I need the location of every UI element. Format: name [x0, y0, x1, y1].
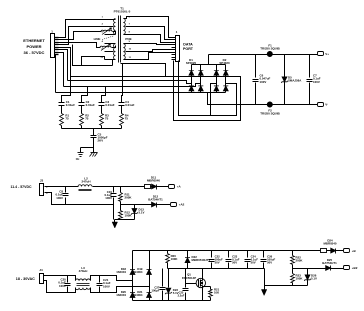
- svg-text:1N4004: 1N4004: [133, 293, 143, 297]
- wire V+ rail: [209, 54, 315, 56]
- svg-text:36 - 57VDC: 36 - 57VDC: [24, 50, 45, 55]
- wire to terminal VA2: [157, 204, 168, 206]
- wire long net B to bridge1 col1 mid: [68, 81, 192, 84]
- svg-text:0.01uF: 0.01uF: [66, 103, 75, 107]
- wire Q1 gate: [186, 283, 197, 285]
- svg-text:75: 75: [105, 117, 109, 121]
- wire bottom bridge bottom rail: [133, 300, 211, 302]
- svg-text:1N4004: 1N4004: [116, 293, 126, 297]
- svg-text:MBR0540: MBR0540: [323, 242, 336, 246]
- connector J2 DATA PORT: [176, 36, 180, 62]
- resistor R3 75: [101, 106, 103, 114]
- diode bridge rectifier diode top col2: [198, 70, 203, 75]
- capacitor C3 0.01uF: [101, 100, 103, 103]
- capacitor C23 0.1uF 50V: [228, 251, 230, 258]
- capacitor C24 0.1uF 50V: [247, 251, 249, 258]
- svg-text:470uH: 470uH: [79, 269, 88, 273]
- fuse box F4: [321, 249, 327, 253]
- wire Q1 drain to mid rail: [202, 269, 204, 281]
- diode bridge rectifier diode top col3: [214, 70, 219, 75]
- connector J3: [40, 184, 44, 196]
- diode D24 MBR0540: [327, 250, 331, 252]
- svg-text:PT61016L-5: PT61016L-5: [114, 10, 131, 14]
- wire J3 pin1 top rail: [45, 186, 79, 188]
- wire long net A loop under bridges to data port: [71, 61, 241, 121]
- svg-text:18 - 30VAC: 18 - 30VAC: [16, 277, 35, 281]
- wire J1 pin7 long line: [55, 53, 64, 87]
- transformer T1 upper primary winding: [105, 19, 116, 21]
- wire cap bank feeds: [82, 87, 88, 100]
- svg-text:100V: 100V: [260, 80, 267, 84]
- wire cap bank bottom bus: [62, 128, 122, 130]
- terminal +VA: [166, 186, 169, 188]
- svg-text:MBR0540HT1: MBR0540HT1: [192, 258, 211, 262]
- svg-text:11.4 - 57VDC: 11.4 - 57VDC: [10, 185, 31, 189]
- wire bridge2 col1 mid stub: [211, 84, 217, 116]
- wire primary lower rail: [73, 45, 113, 66]
- diode D20 1N4004: [130, 293, 135, 298]
- choke L1 on pair wire: [101, 30, 112, 31]
- choke L2 on pair wire: [100, 46, 111, 47]
- svg-text:1N4004: 1N4004: [116, 270, 126, 274]
- svg-text:MBR0540: MBR0540: [147, 179, 160, 183]
- wire bridge negative riser and V- rail: [208, 93, 315, 105]
- wire T1 sec pin to data port pin3: [131, 35, 172, 43]
- capacitor C8 0.1uF 100V: [65, 187, 67, 193]
- choke L3 common mode upper winding: [75, 279, 90, 281]
- resistor R11 200K: [120, 187, 122, 193]
- svg-text:SMAJ58A: SMAJ58A: [288, 79, 302, 83]
- svg-text:75: 75: [85, 117, 89, 121]
- svg-text:100K: 100K: [171, 257, 179, 261]
- wire J1 pin1 to T1 upper winding top: [55, 20, 105, 38]
- svg-text:2.2uF: 2.2uF: [178, 294, 185, 298]
- resistor R20 100K: [167, 251, 169, 254]
- resistor R22 200K: [292, 251, 294, 256]
- svg-text:V+: V+: [325, 52, 329, 56]
- svg-text:DATA: DATA: [183, 43, 193, 47]
- fuse F1: [267, 51, 272, 56]
- diode bridge rectifier diode bottom col4: [223, 86, 228, 91]
- svg-text:100K: 100K: [296, 277, 304, 281]
- svg-text:50V: 50V: [251, 261, 256, 265]
- terminal +B2: [341, 268, 344, 270]
- resistor R21 10K: [203, 286, 211, 288]
- capacitor C25 2.2uF: [183, 288, 189, 290]
- capacitor C4 0.01uF: [121, 100, 123, 103]
- svg-text:75: 75: [65, 117, 69, 121]
- svg-text:200K: 200K: [296, 259, 304, 263]
- svg-text:50V: 50V: [267, 261, 272, 265]
- svg-text:100V: 100V: [59, 284, 66, 288]
- svg-text:+B2: +B2: [352, 266, 358, 270]
- svg-text:10K: 10K: [214, 291, 219, 295]
- svg-text:TR/250 SQUIB: TR/250 SQUIB: [260, 111, 279, 115]
- transformer T1 upper secondary winding: [123, 19, 125, 35]
- capacitor C1 0.01uF: [61, 100, 63, 103]
- ground arrow middle section: [112, 222, 117, 228]
- inductor L2 22uH: [78, 185, 92, 187]
- svg-text:5.1V: 5.1V: [173, 291, 179, 295]
- svg-text:LINE: LINE: [94, 37, 101, 41]
- svg-text:100V: 100V: [105, 196, 112, 200]
- capacitor C26 100uF 50V: [263, 251, 265, 258]
- svg-text:ETHERNET: ETHERNET: [23, 38, 45, 43]
- diode D25 BAT54HT1: [326, 266, 331, 271]
- capacitor C7 0.1uF 100V: [309, 55, 311, 78]
- wire bottom bus middle section: [115, 219, 135, 221]
- diode D18 1N4004: [130, 270, 135, 275]
- zener diode D13 5.1V: [134, 205, 136, 209]
- terminal V+: [315, 54, 318, 56]
- svg-text:100V: 100V: [103, 284, 110, 288]
- transformer T1 core: [118, 16, 120, 63]
- diode D21 1N4004: [147, 293, 152, 298]
- svg-text:POWER: POWER: [26, 44, 41, 49]
- capacitor C22 100uF 50V: [211, 251, 213, 258]
- wire to terminal B2: [331, 268, 341, 270]
- ground chassis symbol: [93, 148, 95, 153]
- wire bridge2 col2 mid loop to data port: [179, 61, 237, 116]
- fuse F2: [267, 102, 272, 107]
- wire J1 pin2 to choke L1 wire: [55, 32, 102, 40]
- svg-text:0.01uF: 0.01uF: [125, 103, 134, 107]
- svg-text:BAT54HT1: BAT54HT1: [322, 261, 337, 265]
- svg-text:5.1V: 5.1V: [311, 277, 317, 281]
- wire T1 sec pin to data port pin1: [124, 17, 172, 38]
- wire T1 sec pin to data port pin8: [131, 53, 172, 60]
- svg-text:100V: 100V: [56, 196, 63, 200]
- ground earth symbol: [78, 152, 84, 154]
- choke L3 lower winding: [75, 288, 90, 290]
- diode D11 MBR0540: [151, 186, 152, 188]
- wire primary lower rail riser to T1 pin: [112, 60, 114, 66]
- wire choke L2 to T1: [112, 46, 116, 48]
- zener diode D26 5.1V: [307, 269, 309, 275]
- terminal +B: [341, 250, 344, 252]
- wire gate divider vertical: [185, 269, 187, 288]
- wire ground drop bottom section: [264, 269, 266, 290]
- wire mid tap rail: [121, 204, 152, 206]
- svg-text:247uH: 247uH: [81, 180, 90, 184]
- resistor R1 75: [61, 106, 63, 114]
- ground arrow bottom section: [261, 290, 266, 296]
- wire top rail after L2: [93, 186, 145, 188]
- wire J4 pin1 top rail to choke: [44, 276, 76, 281]
- capacitor C10 0.1uF 100V: [113, 187, 115, 193]
- svg-text:5.1V: 5.1V: [139, 211, 145, 215]
- wire J3 pin2 bottom rail: [45, 193, 114, 205]
- svg-text:BAT54HT1: BAT54HT1: [148, 198, 163, 202]
- wire to terminal VA1: [157, 186, 166, 188]
- wire choke lower out to bridge col2: [91, 287, 150, 293]
- svg-text:100pF: 100pF: [151, 288, 159, 292]
- diode bridge rectifier diode bottom col3: [214, 86, 219, 91]
- svg-text:50V: 50V: [215, 261, 220, 265]
- terminal +A2: [168, 204, 171, 206]
- wire Q1 source to bottom rail: [202, 286, 204, 301]
- resistor R12 100K: [119, 211, 123, 220]
- diode bridge rectifier diode top col1: [189, 70, 194, 75]
- wire J1 pin3 to choke L2 wire: [55, 43, 101, 48]
- wire J1 pin4 to T1 upper center tap: [55, 27, 105, 45]
- transformer T1 lower primary winding: [105, 43, 116, 45]
- svg-text:PORT: PORT: [183, 47, 194, 51]
- wire J1 pin6 long line: [55, 50, 68, 81]
- resistor R23 100K: [292, 269, 294, 274]
- svg-text:+A2: +A2: [179, 203, 185, 207]
- terminal V-: [315, 104, 318, 106]
- svg-text:J3: J3: [40, 179, 44, 183]
- diode bridge rectifier diode bottom col2: [198, 86, 203, 91]
- svg-text:V-: V-: [325, 103, 328, 107]
- wire choke L1 to T1: [113, 32, 116, 35]
- resistor R4 75: [121, 106, 123, 114]
- wire T1 sec ct to data port pin6: [131, 50, 172, 52]
- svg-text:0.01uF: 0.01uF: [105, 103, 114, 107]
- wire J1 pin stubs: [55, 37, 59, 39]
- wire bottom bridge col2: [149, 251, 151, 301]
- wire bridge bottom rail: [192, 92, 226, 94]
- wire T1 sec pin to data port pin4: [131, 44, 172, 45]
- transistor Q1 FDC5614P: [196, 278, 205, 287]
- wire to terminal B1: [336, 250, 341, 252]
- wire bottom bridge top rail: [133, 250, 321, 252]
- wire bottom bridge col1: [132, 251, 134, 301]
- wire J1 pin5 riser to cap bank feed: [55, 48, 71, 100]
- choke L3 core: [77, 283, 90, 285]
- wire to chassis grounds: [81, 147, 94, 149]
- zener diode D5 SMAJ58A: [284, 55, 286, 77]
- diode D22 MBR0540: [187, 251, 189, 258]
- svg-text:0.01uF: 0.01uF: [86, 103, 95, 107]
- wire long net C to bridge1 col2 mid: [64, 84, 201, 87]
- resistor R2 75: [81, 106, 83, 114]
- wire J4 pin2 bottom rail to choke: [44, 281, 76, 293]
- wire bridge output positive riser: [208, 55, 210, 65]
- capacitor C2 0.01uF: [81, 100, 83, 103]
- wire long net D to bridge bottom rail: [56, 92, 192, 94]
- diode D19 1N4004: [147, 270, 152, 275]
- svg-text:50V: 50V: [232, 261, 237, 265]
- svg-text:2KV: 2KV: [98, 139, 104, 143]
- wire T1 sec ct to data port pin2: [131, 27, 172, 40]
- wire choke upper out to bridge col1: [91, 276, 133, 281]
- capacitor C21 0.1uF: [99, 276, 101, 283]
- connector J4: [40, 274, 44, 284]
- svg-text:1N4004: 1N4004: [133, 270, 143, 274]
- wire bottom bus to resistors: [265, 285, 308, 287]
- svg-text:CH: CH: [76, 158, 80, 161]
- wire bridge top rail: [192, 64, 226, 66]
- diode D12 BAT54HT1: [152, 202, 157, 207]
- svg-text:J4: J4: [39, 268, 43, 272]
- fuse box F3: [145, 185, 151, 189]
- wire mid tap rail bottom right: [293, 268, 326, 270]
- svg-text:100V: 100V: [313, 80, 320, 84]
- diode bridge rectifier diode top col4: [223, 70, 228, 75]
- wire mid rail bottom section: [168, 268, 265, 270]
- transformer T1 lower secondary winding: [123, 44, 125, 60]
- wire T1 bottom rail to bridge area: [121, 64, 166, 77]
- capacitor C6 0.047uF 100V: [255, 55, 257, 78]
- wire T1 primary lower return loop: [82, 57, 105, 66]
- svg-text:200K: 200K: [125, 196, 133, 200]
- zener diode D23 12V: [168, 269, 170, 288]
- capacitor C5 1000pF 2KV: [93, 129, 95, 136]
- capacitor C27 100pF: [162, 269, 164, 287]
- diode bridge rectifier diode bottom col1: [189, 86, 194, 91]
- svg-text:75: 75: [125, 117, 129, 121]
- svg-text:FDC5614P: FDC5614P: [182, 276, 196, 280]
- svg-text:TR/250 SQUIB: TR/250 SQUIB: [260, 47, 279, 51]
- connector J1 ETHERNET POWER: [51, 34, 55, 58]
- capacitor C20 0.1uF: [67, 276, 69, 283]
- wire J1 pin8 long line: [55, 55, 56, 93]
